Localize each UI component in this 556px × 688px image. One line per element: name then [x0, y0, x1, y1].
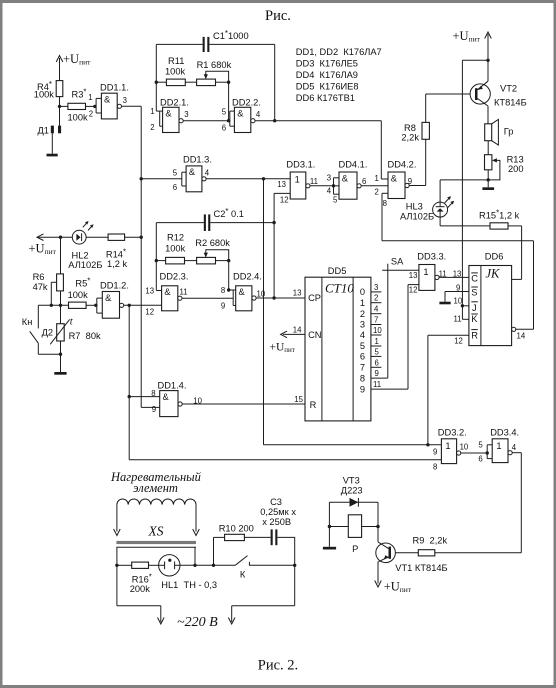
- wire R4 to node: [59, 97, 61, 107]
- svg-text:DD3.1.: DD3.1.: [286, 160, 315, 170]
- svg-text:C1*1000: C1*1000: [213, 29, 249, 41]
- svg-text:3: 3: [327, 174, 331, 183]
- svg-text:10: 10: [460, 443, 469, 452]
- power +Upit arrow at VT1 emitter: [375, 562, 412, 594]
- wire DD3.1 pin12 / C2 right vertical: [272, 193, 290, 298]
- svg-text:2,2k: 2,2k: [401, 133, 419, 143]
- resistor R6: [33, 237, 64, 305]
- resistor R4: [34, 80, 63, 99]
- svg-text:R: R: [310, 400, 317, 410]
- svg-text:13: 13: [409, 271, 418, 280]
- connector XS: [116, 524, 196, 548]
- svg-text:DD6: DD6: [485, 251, 504, 261]
- svg-text:9: 9: [456, 283, 460, 292]
- svg-text:11: 11: [454, 315, 462, 324]
- wire DD2.4 out to DD5 CP: [256, 296, 305, 299]
- wire DD3.2 out to DD3.4 in: [461, 451, 489, 454]
- gate DD1.2: [94, 281, 129, 319]
- svg-text:DD3.4.: DD3.4.: [490, 428, 519, 438]
- resistor R5: [68, 277, 96, 309]
- svg-text:4: 4: [327, 187, 332, 196]
- svg-text:9: 9: [375, 369, 379, 378]
- capacitor C2: [156, 207, 274, 231]
- svg-text:КТ814Б: КТ814Б: [494, 98, 527, 108]
- svg-text:R8: R8: [404, 123, 416, 133]
- resistor R16: [117, 562, 159, 594]
- svg-text:5: 5: [173, 169, 178, 178]
- svg-text:R10 200: R10 200: [219, 523, 254, 533]
- svg-text:DD6 К176ТВ1: DD6 К176ТВ1: [296, 93, 355, 103]
- svg-text:HL2: HL2: [72, 250, 89, 260]
- svg-text:элемент: элемент: [133, 481, 178, 495]
- wire HL2 to R14: [86, 236, 108, 238]
- svg-text:2: 2: [375, 188, 379, 197]
- mains 220V arrows: [117, 565, 295, 630]
- svg-text:2: 2: [89, 110, 93, 119]
- transistor VT1: [376, 542, 448, 573]
- gate DD3.1: [277, 160, 318, 205]
- gate DD2.1: [150, 97, 189, 132]
- gate DD3.3: [409, 251, 447, 294]
- svg-text:VT3: VT3: [343, 476, 360, 486]
- svg-text:1: 1: [375, 174, 379, 183]
- resistor R15: [440, 208, 521, 229]
- svg-text:АЛ102Б: АЛ102Б: [68, 260, 102, 270]
- resistor R2 trimmer: [195, 238, 230, 264]
- svg-text:DD2.2.: DD2.2.: [232, 97, 261, 107]
- wire C1 right vertical: [273, 44, 276, 122]
- svg-text:DD3.2.: DD3.2.: [438, 428, 467, 438]
- svg-text:12: 12: [280, 196, 289, 205]
- power +Upit arrow top-right: [453, 29, 492, 60]
- wire R9 to VT1 base: [391, 552, 418, 554]
- heater plug pins (arrows into XS): [114, 505, 200, 536]
- wire S ground DD6: [445, 292, 469, 302]
- svg-text:S: S: [471, 287, 477, 297]
- DD5 output pin stubs: [371, 292, 408, 389]
- wire DD4.1 out to DD4.2 pin2: [361, 185, 388, 187]
- svg-text:4: 4: [360, 330, 365, 340]
- svg-text:DD1.3.: DD1.3.: [183, 154, 212, 164]
- svg-text:Р: Р: [352, 544, 358, 554]
- wire DD3.3 out to DD6 C: [439, 276, 469, 278]
- gate DD3.4: [478, 428, 519, 464]
- svg-text:8: 8: [383, 199, 387, 208]
- wire DD5 CN +Upit arrow: [270, 331, 306, 354]
- wire oscillator1 resistor row: [156, 81, 230, 121]
- gate DD1.3: [141, 154, 212, 192]
- svg-text:&: &: [165, 109, 172, 119]
- IC type list: [296, 47, 382, 103]
- svg-text:Д2: Д2: [42, 328, 53, 338]
- wire R15 to DD6 right side: [512, 226, 522, 280]
- svg-text:6: 6: [360, 352, 365, 362]
- wire DD3.1 out to DD4.1 in: [310, 184, 335, 187]
- resistor R11: [165, 56, 186, 86]
- svg-text:1,2 k: 1,2 k: [107, 259, 128, 269]
- svg-text:&: &: [239, 287, 246, 297]
- svg-text:АЛ102Б: АЛ102Б: [400, 211, 434, 221]
- svg-text:DD4.1.: DD4.1.: [339, 160, 368, 170]
- resistor R14: [106, 234, 128, 269]
- svg-text:100k: 100k: [34, 89, 55, 99]
- svg-text:&: &: [104, 95, 111, 105]
- svg-text:14: 14: [293, 325, 302, 334]
- wire R7 to ground: [59, 341, 62, 372]
- svg-text:&: &: [105, 293, 112, 303]
- svg-text:х 250В: х 250В: [262, 517, 291, 527]
- svg-text:DD1.2.: DD1.2.: [100, 281, 129, 291]
- svg-text:10: 10: [454, 297, 463, 306]
- svg-text:&: &: [342, 173, 349, 183]
- svg-text:4: 4: [374, 305, 379, 314]
- wire DD1.3 out to DD3.1 pin13: [206, 177, 290, 180]
- svg-text:200k: 200k: [130, 584, 151, 594]
- counter DD5: [293, 266, 371, 421]
- svg-text:R15*1,2 k: R15*1,2 k: [479, 208, 520, 220]
- svg-text:CN: CN: [308, 330, 321, 340]
- svg-text:100k: 100k: [68, 113, 89, 123]
- svg-text:CT10: CT10: [325, 281, 354, 296]
- svg-text:DD2.3.: DD2.3.: [160, 271, 189, 281]
- svg-text:Кн: Кн: [22, 317, 33, 327]
- gate DD4.2: [375, 160, 417, 209]
- wire R14 to DD1.1 output vertical: [59, 236, 141, 239]
- wire DD2.2 out to DD4.2 pin1: [255, 121, 388, 179]
- svg-text:1: 1: [360, 298, 365, 308]
- svg-text:100k: 100k: [68, 290, 89, 300]
- svg-text:47k: 47k: [33, 282, 48, 292]
- heater coil: [110, 470, 202, 505]
- svg-text:3: 3: [184, 110, 188, 119]
- thermistor R7: [42, 305, 101, 344]
- svg-text:DD1.1.: DD1.1.: [100, 83, 129, 93]
- svg-text:DD4.2.: DD4.2.: [388, 160, 417, 170]
- capacitor C3: [244, 497, 296, 565]
- wire mains line middle: [180, 564, 235, 567]
- gate DD1.4: [151, 380, 202, 416]
- resistor R13 trimmer: [485, 141, 524, 180]
- svg-text:DD3.3.: DD3.3.: [417, 251, 446, 261]
- svg-text:R2 680k: R2 680k: [195, 238, 230, 248]
- wire DD2.1 out to DD2.2 in: [183, 119, 230, 122]
- svg-text:6: 6: [173, 183, 177, 192]
- svg-text:R13: R13: [507, 155, 524, 165]
- svg-text:11: 11: [180, 288, 188, 297]
- svg-text:1: 1: [88, 93, 92, 102]
- power +Upit arrow left (HL2 row): [29, 234, 73, 256]
- svg-text:1: 1: [375, 337, 379, 346]
- node R13 bottom / ground: [487, 178, 490, 187]
- sensor D1 piezo: [38, 106, 62, 153]
- gate DD4.1: [327, 160, 368, 205]
- svg-text:5: 5: [360, 341, 365, 351]
- wire DD1.2 out to DD2.3 pin12: [124, 304, 162, 307]
- svg-text:HL3: HL3: [406, 202, 423, 212]
- transistor VT2: [470, 60, 527, 124]
- svg-text:R7 80k: R7 80k: [69, 331, 101, 341]
- svg-text:5: 5: [478, 441, 483, 450]
- svg-text:К: К: [240, 569, 246, 579]
- svg-text:SA: SA: [391, 256, 404, 266]
- svg-text:9: 9: [360, 384, 365, 394]
- gate DD2.4: [221, 271, 266, 311]
- svg-text:6: 6: [375, 358, 379, 367]
- wire DD4.2 out to R8: [409, 139, 426, 185]
- svg-text:200: 200: [508, 164, 524, 174]
- resistor R8: [401, 122, 429, 142]
- svg-text:DD1, DD2 К176ЛА7: DD1, DD2 К176ЛА7: [296, 47, 382, 57]
- wire DD2.3 out to DD2.4 in: [182, 297, 233, 299]
- svg-text:R6: R6: [33, 272, 45, 282]
- svg-text:14: 14: [517, 332, 526, 341]
- wire DD6 R pin12: [428, 335, 469, 445]
- svg-text:0: 0: [360, 287, 365, 297]
- svg-text:VT2: VT2: [500, 84, 517, 94]
- switch SA: [382, 256, 419, 378]
- svg-text:7: 7: [374, 316, 378, 325]
- svg-text:&: &: [189, 167, 196, 177]
- wire VT1 collector to relay: [376, 502, 379, 542]
- svg-text:13: 13: [293, 289, 302, 298]
- svg-text:DD3 К176ЛЕ5: DD3 К176ЛЕ5: [296, 59, 358, 69]
- svg-text:HL1 ТН - 0,3: HL1 ТН - 0,3: [161, 580, 217, 590]
- svg-text:4: 4: [256, 110, 261, 119]
- svg-text:8: 8: [433, 462, 437, 471]
- svg-text:Д1: Д1: [38, 126, 49, 136]
- svg-text:4: 4: [205, 169, 210, 178]
- svg-text:XS: XS: [148, 524, 164, 539]
- svg-text:&: &: [164, 287, 171, 297]
- gate DD3.2: [433, 428, 469, 472]
- svg-text:DD5: DD5: [328, 266, 347, 276]
- relay contact K: [235, 556, 296, 580]
- svg-text:J: J: [472, 303, 477, 313]
- svg-text:8: 8: [151, 389, 155, 398]
- LED HL3: [400, 180, 454, 226]
- svg-text:8: 8: [221, 286, 225, 295]
- resistor R9: [413, 536, 448, 556]
- svg-text:3: 3: [123, 96, 127, 105]
- wire DD1.2 out vertical to DD1.4 pin8 and DD3.2 pin8: [128, 305, 442, 460]
- svg-text:9: 9: [433, 448, 437, 457]
- svg-text:12: 12: [454, 337, 463, 346]
- svg-text:9: 9: [221, 301, 225, 310]
- relay coil P: [329, 515, 378, 554]
- svg-text:1: 1: [150, 107, 154, 116]
- ground under R13: [482, 187, 494, 190]
- node R4/R3/D1: [58, 105, 61, 108]
- svg-text:&: &: [237, 109, 244, 119]
- svg-text:DD4 К176ЛА9: DD4 К176ЛА9: [296, 70, 358, 80]
- svg-text:DD1.4.: DD1.4.: [158, 380, 187, 390]
- svg-text:CP: CP: [308, 293, 321, 303]
- svg-text:2: 2: [360, 309, 365, 319]
- svg-text:R: R: [471, 330, 478, 340]
- svg-text:8: 8: [360, 373, 365, 383]
- svg-text:4: 4: [512, 443, 517, 452]
- gate DD1.1: [88, 83, 129, 119]
- wire J-K tie to +U vertical: [461, 304, 469, 319]
- svg-text:DD5 К176ИЕ8: DD5 К176ИЕ8: [296, 82, 359, 92]
- svg-text:12: 12: [409, 285, 418, 294]
- svg-text:Рис.: Рис.: [265, 8, 291, 24]
- svg-text:100k: 100k: [165, 67, 186, 77]
- svg-text:VT1 КТ814Б: VT1 КТ814Б: [395, 563, 447, 573]
- svg-text:6: 6: [222, 124, 226, 133]
- neon lamp HL1: [159, 555, 218, 590]
- wire DD1.4 out to DD5 R pin15: [182, 403, 305, 405]
- svg-text:&: &: [163, 392, 170, 402]
- wire DD3.3 pin12 to DD5 out9: [408, 285, 419, 390]
- svg-text:2: 2: [150, 123, 154, 132]
- flip-flop DD6: [453, 251, 526, 345]
- svg-text:R9 2,2k: R9 2,2k: [413, 536, 448, 546]
- ground under R7: [54, 372, 66, 375]
- diode VD (VT3 D223): [329, 476, 378, 507]
- svg-text:12: 12: [145, 308, 154, 317]
- svg-text:100k: 100k: [165, 244, 186, 254]
- wire XS to mains line: [115, 547, 196, 606]
- resistor R3: [60, 88, 95, 123]
- resistor R1 trimmer: [197, 60, 232, 86]
- svg-text:7: 7: [360, 363, 365, 373]
- svg-text:3: 3: [360, 320, 365, 330]
- capacitor C1: [156, 29, 274, 52]
- svg-text:6: 6: [362, 177, 366, 186]
- svg-text:K: K: [471, 314, 478, 324]
- wire C2 left vertical to DD2.3 pin13: [155, 223, 162, 291]
- wire base row y305: [38, 304, 68, 307]
- svg-text:13: 13: [145, 287, 154, 296]
- svg-text:JK: JK: [486, 267, 501, 281]
- wire DD1.1 output net (down left column): [122, 106, 160, 407]
- svg-text:R1 680k: R1 680k: [197, 60, 232, 70]
- svg-text:R12: R12: [167, 233, 184, 243]
- svg-text:9: 9: [408, 177, 412, 186]
- svg-text:15: 15: [294, 395, 303, 404]
- svg-text:0,25мк х: 0,25мк х: [260, 507, 296, 517]
- svg-text:11: 11: [373, 380, 381, 389]
- power +Upit arrow top-left: [56, 52, 91, 81]
- gate DD2.2: [222, 97, 261, 132]
- resistor R10: [214, 523, 254, 565]
- svg-text:Гр: Гр: [504, 127, 514, 137]
- svg-text:2: 2: [374, 294, 378, 303]
- svg-text:5: 5: [333, 196, 338, 205]
- svg-text:C2* 0.1: C2* 0.1: [214, 207, 244, 219]
- svg-text:10: 10: [373, 326, 382, 335]
- ground at DD6 S input: [439, 302, 450, 305]
- svg-text:13: 13: [277, 180, 286, 189]
- svg-text:11: 11: [310, 177, 318, 186]
- node VT2 emitter / J-K branch: [462, 59, 489, 306]
- ground under D1: [47, 154, 58, 157]
- svg-text:3: 3: [374, 283, 378, 292]
- svg-text:1: 1: [445, 441, 450, 451]
- svg-text:Д223: Д223: [341, 485, 363, 495]
- svg-text:1: 1: [423, 267, 428, 277]
- gate DD2.3: [145, 271, 188, 316]
- resistor R12: [165, 233, 186, 264]
- wire oscillator2 resistor row: [156, 259, 230, 290]
- DD5 output digits: [360, 287, 365, 394]
- svg-text:~220 В: ~220 В: [177, 615, 218, 630]
- svg-text:DD2.4.: DD2.4.: [233, 271, 262, 281]
- svg-text:6: 6: [478, 455, 482, 464]
- wire relay left to ground: [328, 502, 331, 547]
- wire DD1.3 out net to DD3.2 pin9 and DD6 R: [264, 179, 442, 447]
- svg-text:5: 5: [375, 347, 380, 356]
- wire HL3 top to R13 node: [440, 179, 488, 181]
- svg-text:C: C: [471, 274, 478, 284]
- speaker Gr: [485, 119, 514, 145]
- svg-text:Рис. 2.: Рис. 2.: [258, 658, 298, 674]
- svg-text:R11: R11: [168, 56, 184, 66]
- svg-text:С3: С3: [270, 497, 282, 507]
- svg-text:10: 10: [257, 290, 266, 299]
- wire DD3.4 out to R9: [435, 453, 522, 553]
- wire DD4.2 pin8 to DD6 out14: [382, 193, 534, 329]
- svg-text:9: 9: [152, 405, 156, 414]
- svg-text:1: 1: [295, 175, 300, 185]
- ground at relay: [323, 547, 336, 550]
- svg-text:DD2.1.: DD2.1.: [160, 97, 189, 107]
- wire R8 to VT2 base: [426, 94, 476, 122]
- svg-text:1: 1: [496, 441, 501, 451]
- svg-text:&: &: [391, 173, 398, 183]
- svg-text:5: 5: [222, 108, 227, 117]
- DD5 output pin numbers: [373, 283, 382, 389]
- LED HL2: [68, 221, 102, 270]
- switch Kn: [22, 305, 61, 354]
- wire C1 left vertical to DD2.1 inputs: [155, 44, 163, 126]
